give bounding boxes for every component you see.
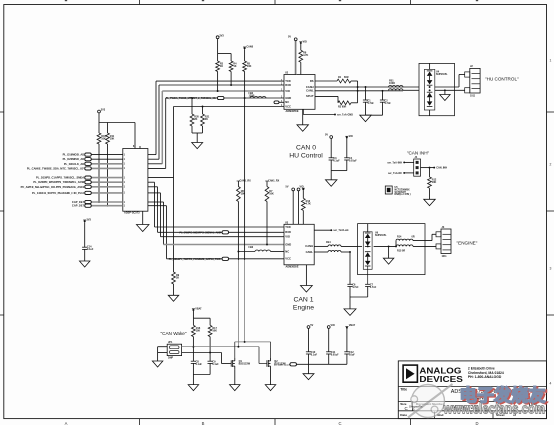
svg-text:CAN0_RX: CAN0_RX (240, 180, 252, 183)
svg-text:4.7K: 4.7K (306, 203, 311, 206)
svg-text:3V3: 3V3 (101, 109, 106, 112)
svg-text:CANL: CANL (306, 250, 314, 254)
svg-text:PH: 1-800-ANALOGD: PH: 1-800-ANALOGD (468, 375, 502, 379)
svg-text:CANL: CANL (306, 89, 314, 93)
svg-text:TXD: TXD (285, 225, 290, 229)
svg-text:10K: 10K (269, 193, 274, 196)
svg-text:10K: 10K (101, 138, 106, 141)
svg-text:4.7nF: 4.7nF (370, 286, 377, 289)
svg-text:PL_TWI0A_TWI0B_MTWI0T_2_TWI0SC: PL_TWI0A_TWI0B_MTWI0T_2_TWI0SCL_IO# (166, 97, 217, 100)
svg-text:VIO: VIO (331, 324, 335, 327)
svg-text:ADSP-SC573: ADSP-SC573 (124, 212, 140, 215)
svg-text:0.1uF: 0.1uF (196, 363, 203, 366)
svg-text:10K: 10K (432, 181, 437, 184)
svg-text:CAN0: CAN0 (246, 46, 253, 49)
svg-text:VIO: VIO (285, 89, 290, 93)
svg-text:2K: 2K (194, 118, 197, 121)
svg-text:10K: 10K (212, 330, 217, 333)
svg-text:1K: 1K (220, 65, 223, 68)
svg-text:0.1uF: 0.1uF (212, 363, 219, 366)
svg-text:5V: 5V (288, 36, 291, 39)
svg-text:3: 3 (550, 267, 552, 271)
svg-text:4: 4 (550, 382, 552, 386)
svg-text:1011: 1011 (442, 256, 448, 258)
svg-text:B: B (202, 421, 205, 425)
svg-text:4.7nF: 4.7nF (352, 286, 359, 289)
svg-text:"CAN Wake": "CAN Wake" (160, 331, 186, 336)
svg-text:4.7nF: 4.7nF (368, 102, 375, 105)
svg-text:VCC: VCC (285, 257, 291, 261)
svg-text:ShopeeFlx: ShopeeFlx (409, 405, 423, 409)
svg-text:4.7K: 4.7K (303, 54, 308, 57)
svg-text:BSS123W: BSS123W (239, 363, 251, 366)
svg-text:R15 0R: R15 0R (397, 250, 405, 253)
svg-text:10K: 10K (247, 65, 252, 68)
svg-text:VIO: VIO (303, 40, 307, 43)
svg-text:NUP2105L: NUP2105L (375, 235, 387, 237)
svg-text:5V: 5V (310, 324, 313, 327)
svg-text:TXD: TXD (285, 79, 290, 83)
svg-text:GND: GND (285, 242, 291, 246)
svg-text:RXD: RXD (285, 230, 291, 234)
svg-text:"ENGINE": "ENGINE" (457, 240, 478, 245)
svg-text:"HU CONTROL": "HU CONTROL" (485, 76, 519, 81)
svg-text:JP1: JP1 (168, 341, 173, 344)
svg-text:CAN 1: CAN 1 (293, 297, 313, 304)
svg-text:100R: 100R (389, 82, 395, 85)
svg-text:ser_TxA-GND: ser_TxA-GND (337, 114, 353, 117)
svg-text:PL_HELWY_TWPPS_PGNOME_KATWI_TW: PL_HELWY_TWPPS_PGNOME_KATWI_TWR (169, 258, 221, 261)
svg-text:CAN1_RX: CAN1_RX (268, 180, 280, 183)
svg-text:10K: 10K (241, 193, 246, 196)
svg-text:120R: 120R (249, 95, 255, 98)
svg-text:2: 2 (550, 163, 552, 167)
svg-text:2K: 2K (205, 118, 208, 121)
svg-text:FB4: FB4 (326, 241, 331, 244)
svg-text:CAN 0: CAN 0 (296, 145, 316, 152)
svg-text:10K: 10K (196, 330, 201, 333)
svg-text:ADM3055E: ADM3055E (286, 110, 299, 113)
svg-text:ser_TxA-NC: ser_TxA-NC (388, 172, 402, 175)
svg-text:GND: GND (285, 96, 291, 100)
svg-text:0.1uF: 0.1uF (333, 160, 340, 163)
svg-text:VBAT: VBAT (195, 307, 202, 310)
svg-text:CAP_DET: CAP_DET (72, 200, 85, 204)
svg-text:VBAT: VBAT (349, 324, 356, 327)
svg-text:PL_SWIPC_MOSFPS_SIGNAL_AMR: PL_SWIPC_MOSFPS_SIGNAL_AMR (179, 231, 221, 234)
svg-text:ser_TxA-INH: ser_TxA-INH (387, 161, 402, 164)
svg-text:CANH: CANH (306, 85, 314, 89)
svg-text:ADM3055E: ADM3055E (286, 265, 299, 268)
svg-text:HU Control: HU Control (289, 153, 323, 160)
svg-text:10K: 10K (110, 138, 115, 141)
svg-text:2K: 2K (176, 277, 179, 280)
svg-text:10uF: 10uF (349, 354, 355, 357)
svg-text:0.1uF: 0.1uF (87, 248, 94, 251)
svg-text:"CAN INH": "CAN INH" (407, 151, 430, 156)
svg-text:0R: 0R (412, 235, 415, 238)
svg-text:VIO: VIO (349, 135, 353, 138)
svg-text:DEVICES: DEVICES (419, 374, 463, 384)
svg-text:CAP_DET: CAP_DET (72, 204, 85, 208)
svg-text:ser_TxA1-wk: ser_TxA1-wk (333, 229, 349, 232)
svg-text:PL_D15IPD_C1APPS_TWI0SCL_SMDA: PL_D15IPD_C1APPS_TWI0SCL_SMDA (36, 176, 84, 180)
svg-text:R14: R14 (397, 235, 402, 238)
svg-text:4.7nF: 4.7nF (385, 102, 392, 105)
svg-text:CAN_INH: CAN_INH (436, 167, 447, 170)
svg-text:Title: Title (400, 388, 407, 392)
svg-text:PL_D21CLK_AD: PL_D21CLK_AD (64, 162, 84, 166)
svg-text:0.01uF: 0.01uF (331, 354, 339, 357)
svg-text:PL_CAN0E_TWI0SE_SDA_MTC_TWI0SC: PL_CAN0E_TWI0SE_SDA_MTC_TWI0SCL_IO* (27, 166, 85, 170)
svg-text:1011: 1011 (470, 96, 476, 98)
svg-text:C: C (338, 421, 341, 425)
svg-text:PL_D19MOSI_AD: PL_D19MOSI_AD (63, 153, 85, 157)
svg-text:PC_AM74I_SELIalPTH1_DO-PPS_PGS: PC_AM74I_SELIalPTH1_DO-PPS_PGSMACE_ASFIt (21, 185, 85, 189)
svg-text:A: A (65, 421, 68, 425)
svg-text:RXD: RXD (285, 83, 291, 87)
svg-text:5V: 5V (325, 134, 328, 137)
svg-text:C: C (405, 406, 408, 411)
svg-text:L5_CAN_sconf: L5_CAN_sconf (274, 363, 290, 366)
svg-text:1: 1 (550, 59, 552, 63)
svg-text:VIO: VIO (285, 235, 290, 239)
svg-text:SPLIT: SPLIT (306, 94, 314, 98)
svg-text:NC: NC (285, 249, 289, 253)
svg-text:Engine: Engine (293, 305, 314, 312)
svg-text:NC: NC (285, 100, 289, 104)
svg-text:R2 60R: R2 60R (338, 106, 347, 109)
svg-text:电子发烧友: 电子发烧友 (460, 385, 546, 405)
svg-text:VCC: VCC (285, 104, 291, 108)
svg-text:0.1uF: 0.1uF (311, 354, 318, 357)
svg-text:DNP(LL7-P/N ): DNP(LL7-P/N ) (395, 194, 411, 196)
svg-text:PL_14D441_SUPTIt_PEAKGMt_t=IO_: PL_14D441_SUPTIt_PEAKGMt_t=IO_PLUt (32, 191, 84, 195)
svg-text:PL_D26IPD_WISOPPS_TWI0SMCL_AOW: PL_D26IPD_WISOPPS_TWI0SMCL_AOW (33, 180, 84, 184)
svg-text:NUP2105L: NUP2105L (436, 74, 448, 76)
svg-text:3V3: 3V3 (219, 35, 224, 38)
svg-text:60R: 60R (344, 76, 349, 79)
svg-text:CANH: CANH (305, 244, 313, 248)
svg-text:PL_D20MISO_AD: PL_D20MISO_AD (63, 157, 85, 161)
svg-text:DNP: DNP (168, 357, 173, 360)
svg-text:5V: 5V (285, 186, 288, 189)
svg-text:Date: Date (400, 413, 407, 417)
svg-text:3V3: 3V3 (87, 219, 92, 222)
svg-text:0.01uF: 0.01uF (349, 160, 357, 163)
svg-text:D: D (475, 421, 478, 425)
svg-text:FB3: FB3 (249, 246, 254, 249)
svg-text:1K: 1K (233, 65, 236, 68)
svg-text:RS: RS (310, 79, 314, 83)
